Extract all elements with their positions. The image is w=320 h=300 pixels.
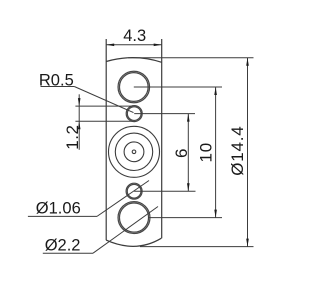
arrowhead 1.2 top (outside, pointing down) xyxy=(78,98,81,106)
extension line 6 bottom (from lower small circle center) xyxy=(134,190,195,192)
concentric circle middle xyxy=(115,133,152,170)
hole circle lower small outer ring (diameter 1.06) xyxy=(126,183,142,199)
extension line 1.2 bottom xyxy=(75,120,132,122)
concentric circle outer xyxy=(109,126,160,177)
svg-text:4.3: 4.3 xyxy=(123,27,146,45)
arrowhead 10 bottom xyxy=(214,210,217,218)
dimension line 1.2 vertical xyxy=(78,94,80,150)
arrowhead 6 bottom xyxy=(187,183,190,191)
hole circle top large inner ring xyxy=(119,73,148,102)
svg-text:Ø14.4: Ø14.4 xyxy=(228,125,247,175)
svg-text:1.2: 1.2 xyxy=(63,125,82,150)
arrowhead 14.4 bottom xyxy=(246,239,249,247)
arrowhead 1.2 bottom (outside, pointing up) xyxy=(78,121,81,129)
hole circle bottom large outer ring (diameter 2.2) xyxy=(118,202,150,234)
arrowhead 10 top xyxy=(214,87,217,95)
dimension line 6 xyxy=(187,114,189,192)
hole circle upper small outer ring (R0.5 / 1.2) xyxy=(126,106,142,122)
dimension line 10 xyxy=(215,87,217,218)
hole circle bottom large inner ring xyxy=(119,203,148,232)
svg-text:Ø1.06: Ø1.06 xyxy=(36,200,81,218)
extension line 10 bottom (from bottom circle center) xyxy=(148,217,222,219)
leader line diameter 1.06 through small circle xyxy=(97,181,149,217)
leader underline diameter 1.06 xyxy=(28,215,97,217)
extension line 1.2 top xyxy=(75,105,131,107)
leader line R0.5 to small circle xyxy=(74,87,133,113)
svg-text:R0.5: R0.5 xyxy=(39,72,74,90)
hole circle upper small inner ring xyxy=(127,107,141,121)
leader line diameter 2.2 through bottom circle xyxy=(93,207,158,254)
arrowhead 4.3 right xyxy=(154,44,162,47)
hole circle lower small inner ring xyxy=(127,184,141,198)
svg-text:Ø2.2: Ø2.2 xyxy=(45,236,81,254)
arrowhead 14.4 top xyxy=(246,58,249,66)
concentric circle inner xyxy=(124,142,144,162)
concentric center dot xyxy=(132,150,136,154)
svg-text:10: 10 xyxy=(197,142,216,163)
arrowhead 6 top xyxy=(187,114,190,122)
hole circle top large outer ring xyxy=(118,71,150,103)
dimension line 14.4 xyxy=(247,58,249,247)
extension line 14.4 top xyxy=(128,57,254,59)
arrowhead 4.3 left xyxy=(106,44,114,47)
part outline right edge (with 4.3 extension above) xyxy=(161,39,163,238)
extension line 6 top (from upper small circle center) xyxy=(134,113,195,115)
extension line 14.4 bottom xyxy=(140,246,254,248)
part outline left edge (with 4.3 extension above) xyxy=(105,39,107,240)
svg-text:6: 6 xyxy=(172,149,191,158)
extension line 10 top (from top circle center) xyxy=(134,86,222,88)
part outline bottom arc xyxy=(106,238,161,246)
dimension line 4.3 xyxy=(106,44,162,46)
leader underline R0.5 xyxy=(41,86,75,88)
part outline top arc xyxy=(106,58,162,63)
leader underline diameter 2.2 xyxy=(43,252,93,254)
